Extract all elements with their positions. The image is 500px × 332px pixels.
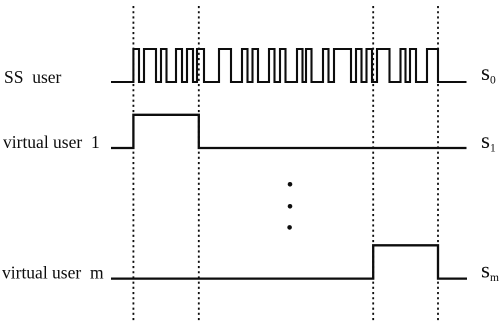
boundary dotted line t3 <box>437 6 439 322</box>
ellipsis dot 3 <box>287 225 292 230</box>
svg-text:s0: s0 <box>481 60 496 87</box>
boundary dotted line t2 <box>372 6 374 322</box>
svg-text:SS user: SS user <box>4 67 62 87</box>
svg-text:virtual user m: virtual user m <box>2 263 104 283</box>
SS user spreading waveform s0 <box>111 49 467 82</box>
svg-text:sm: sm <box>481 258 499 285</box>
virtual user m waveform sm <box>111 245 467 278</box>
boundary dotted line t0 <box>132 6 134 322</box>
svg-text:s1: s1 <box>481 128 496 155</box>
ellipsis dot 1 <box>288 182 293 187</box>
virtual user 1 waveform s1 <box>111 115 467 148</box>
boundary dotted line t1 <box>198 6 200 322</box>
svg-text:virtual user 1: virtual user 1 <box>3 132 100 152</box>
ellipsis dot 2 <box>288 204 293 209</box>
